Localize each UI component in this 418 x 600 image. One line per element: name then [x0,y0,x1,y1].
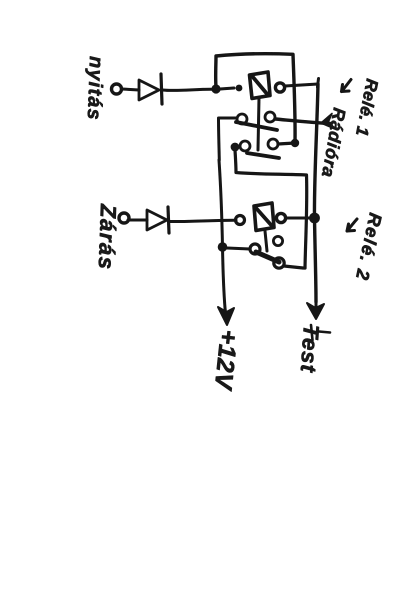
wire: coil K2 right to Test junction [286,217,311,220]
pin: coil K2 right terminal [276,213,285,222]
wire: +12V vertical line [219,160,225,308]
diode D2 (zárás) [147,207,169,233]
wire: relay1 outer box (top + left + right sides) [216,54,295,143]
wire: junction to relay2 common [227,248,250,249]
svg-text:Rádióra: Rádióra [318,106,350,179]
wire: S-wire pole2 junction down right and down to relay2 NO [235,150,307,268]
wire: relay2 NO contact to S-wire corner [284,266,305,268]
pin: relay1 pole2 NO contact [268,139,278,149]
svg-text:Test: Test [296,324,324,375]
label: Test extra T bar [311,325,313,340]
arrow: Relé 1 pointer [342,80,352,92]
arrow: Relé 2 pointer [347,219,357,231]
wire: pole1 NO to Rádióra [275,119,330,124]
relay coil K2 [254,203,274,231]
switch arm: relay2 [256,252,279,262]
wire: pole1 left corner feed [219,118,238,160]
pin: coil K1 right terminal [275,83,284,92]
pin: relay1 pole1 common contact [237,114,247,124]
wire: relay1 box bottom-right to pole2 contact [278,143,295,144]
pin: relay2 NO contact [274,258,284,268]
node: relay2 pole junction on +12V line [218,242,228,252]
wire: D1 cathode to relay1 coil node [162,89,213,90]
node: relay1 pole2 junction [231,143,240,152]
switch arm: relay1 pole2 [247,153,279,158]
pin: relay1 pole1 NO contact [265,112,275,122]
node: Test/coil2 junction [309,213,320,224]
switch arm: relay1 pole1 [236,122,277,130]
wire: zárás terminal to diode D2 [128,219,147,222]
diode D1 (nyitás) [139,74,162,104]
wire: nyitás terminal to diode D1 [122,89,139,90]
node: nyitás input terminal [112,84,122,94]
svg-text:nyitás: nyitás [83,56,107,121]
wire: relay1 actuator link [258,98,259,150]
pin: relay2 common contact [250,244,260,254]
svg-text:Relé. 2: Relé. 2 [352,211,386,283]
arrow: +12V [225,308,226,316]
node A: junction at relay1 coil left [211,84,220,93]
arrow: Rádióra pointer [321,114,332,128]
pin: relay2 NC contact [273,236,282,245]
relay coil K1 [250,72,271,99]
wire: D2 cathode to coil2 left terminal [169,220,236,221]
wire: Test vertical line [314,84,318,302]
wire: junction to coil1 terminal [220,88,234,89]
svg-text:Relé. 1: Relé. 1 [352,77,382,138]
node: zárás input terminal [119,213,129,223]
wire: relay2 actuator link [265,231,267,251]
svg-text:Zárás: Zárás [94,203,121,271]
arrow: Test [315,302,318,312]
svg-text:+12V: +12V [209,328,242,393]
pin: relay1 pole2 common contact [240,141,250,151]
pin: coil K2 left terminal [236,216,245,225]
wire: coil K1 right to Test vertical [285,79,319,88]
